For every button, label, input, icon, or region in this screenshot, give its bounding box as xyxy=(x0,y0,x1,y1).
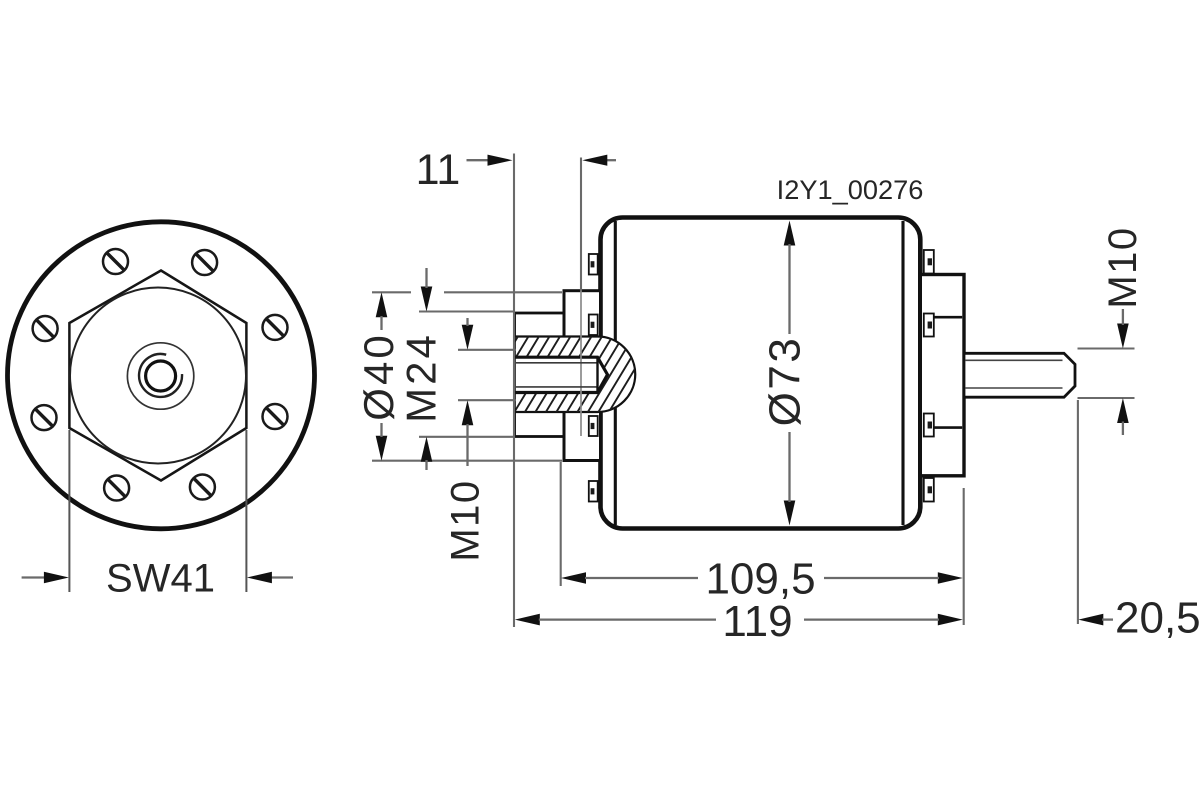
svg-text:I2Y1_00276: I2Y1_00276 xyxy=(777,174,924,205)
svg-text:Ø73: Ø73 xyxy=(761,336,810,427)
svg-text:M10: M10 xyxy=(1101,226,1145,308)
svg-text:M24: M24 xyxy=(398,332,445,423)
svg-text:20,5: 20,5 xyxy=(1115,594,1200,643)
svg-text:SW41: SW41 xyxy=(106,557,215,601)
svg-text:11: 11 xyxy=(416,146,461,194)
svg-text:Ø40: Ø40 xyxy=(355,332,402,420)
svg-text:M10: M10 xyxy=(444,479,488,561)
svg-text:119: 119 xyxy=(722,597,792,646)
